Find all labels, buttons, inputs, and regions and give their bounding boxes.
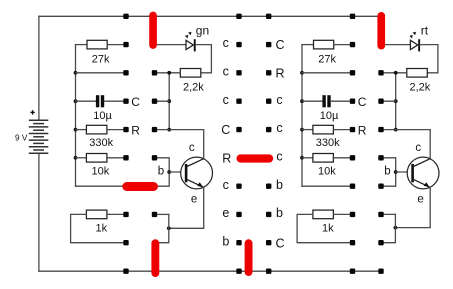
svg-text:c: c xyxy=(223,36,229,50)
svg-text:e: e xyxy=(191,193,197,205)
wire row5 pad to base bus xyxy=(155,158,170,186)
svg-text:1k: 1k xyxy=(95,222,107,234)
wire 2,2k left to pad row2 xyxy=(155,72,181,74)
node pads row2 xyxy=(123,70,383,75)
capacitor C1 10u (left) xyxy=(96,95,104,107)
wire row5 pad to base bus right xyxy=(381,158,396,186)
svg-text:gn: gn xyxy=(196,23,209,37)
wire 2,2k left to pad row2 right xyxy=(381,72,407,74)
wire row7 pad to emitter bus right xyxy=(381,213,395,215)
LED D2 rt xyxy=(409,32,420,52)
wire battery negative lead (left rail lower) xyxy=(38,153,40,271)
wire capacitor to pad xyxy=(104,100,126,102)
svg-text:9 V: 9 V xyxy=(15,133,28,142)
junction row3 left xyxy=(167,99,171,103)
wire row4 pad to collector right xyxy=(381,130,430,159)
svg-text:b: b xyxy=(276,206,283,220)
wire LED gn anode feed xyxy=(155,44,186,46)
wire LED rt anode feed xyxy=(383,44,410,46)
svg-text:C: C xyxy=(131,95,140,109)
svg-text:2,2k: 2,2k xyxy=(183,81,204,93)
wire left block vertical rail xyxy=(75,45,77,187)
wire row4 rail to 330k right xyxy=(302,129,313,131)
transistor Q2 (right) xyxy=(407,157,439,189)
wire row6 rail to jumper xyxy=(76,185,127,187)
svg-text:27k: 27k xyxy=(318,54,336,66)
wire row6 rail to pad right xyxy=(302,185,353,187)
svg-text:c: c xyxy=(223,93,229,107)
svg-text:C: C xyxy=(221,123,230,137)
wire row3 pad to bus right xyxy=(381,100,396,102)
wire row2 rail to pad right xyxy=(302,72,353,74)
resistor 330k (right) xyxy=(313,125,334,134)
wire emitter Q1 down xyxy=(169,187,204,228)
svg-text:C: C xyxy=(275,236,284,250)
junction base Q1 xyxy=(167,170,171,174)
svg-text:1k: 1k xyxy=(322,222,334,234)
node rail junctions right xyxy=(300,71,304,160)
svg-text:c: c xyxy=(276,149,282,163)
jumper J5 red bottom left xyxy=(151,239,159,277)
wire right block vertical rail xyxy=(301,45,303,187)
node pads row4 xyxy=(123,127,383,132)
junction emitter node right xyxy=(394,226,398,230)
svg-text:c: c xyxy=(276,121,282,135)
wire row7 pad to emitter bus xyxy=(155,213,169,215)
node pads row3 xyxy=(123,99,383,104)
wire battery positive lead (left rail upper) xyxy=(38,16,40,120)
svg-text:b: b xyxy=(158,166,164,178)
junction base Q2 xyxy=(394,170,398,174)
wire collector bus vertical (rows2-4 right) xyxy=(395,73,397,130)
wire 27k to pad xyxy=(107,44,126,46)
svg-text:c: c xyxy=(415,142,421,154)
wire base Q2 xyxy=(396,171,412,173)
svg-text:rt: rt xyxy=(421,23,429,37)
svg-text:10µ: 10µ xyxy=(320,110,339,122)
capacitor C2 10u (right) xyxy=(322,95,330,107)
wire row4 pad to collector xyxy=(155,130,204,159)
wire 1k top to pad row7 right xyxy=(333,213,352,215)
wire 27k to pad right xyxy=(334,44,353,46)
wire 27k row1 left xyxy=(76,44,88,46)
junction row3 right xyxy=(394,99,398,103)
junction row4 left xyxy=(167,128,171,132)
svg-text:10µ: 10µ xyxy=(93,110,112,122)
wire LED rt cathode to corner xyxy=(420,45,438,73)
wire emitter bus rows7-8 left xyxy=(159,214,169,242)
junction row2 right xyxy=(394,71,398,75)
battery plus terminal mark xyxy=(30,110,34,114)
wire 330k to pad xyxy=(107,129,126,131)
svg-text:R: R xyxy=(222,151,231,165)
jumper J6 red bottom middle xyxy=(245,239,253,276)
node pads row5 xyxy=(123,155,383,160)
resistor 1k (left) xyxy=(86,210,107,219)
wire emitter Q2 down xyxy=(395,187,430,227)
resistor 2,2k (right) xyxy=(407,69,428,78)
wire collector bus vertical (rows2-4 left) xyxy=(168,73,170,130)
node pads row1 xyxy=(123,42,355,47)
node pads top rail xyxy=(123,14,355,19)
jumper J1 red top left xyxy=(149,12,157,49)
svg-text:C: C xyxy=(358,95,367,109)
wire 10k to pad right xyxy=(333,157,352,159)
node pads row6 xyxy=(236,184,383,189)
node letters middle right column xyxy=(275,38,284,250)
jumper J4 red row5 middle xyxy=(237,154,274,162)
wire capacitor to pad right xyxy=(331,100,353,102)
resistor 27k (right) xyxy=(314,40,334,49)
resistor 330k (left) xyxy=(86,125,107,134)
node pads row7 xyxy=(123,212,383,217)
battery B1 9V xyxy=(29,120,49,153)
wire 1k U loop to row8 right xyxy=(297,214,352,242)
svg-text:C: C xyxy=(275,38,284,52)
wire row5 rail to 10k right xyxy=(302,157,313,159)
junction emitter node left xyxy=(167,226,171,230)
svg-text:R: R xyxy=(131,124,140,138)
svg-text:b: b xyxy=(222,234,229,248)
node rail junctions left xyxy=(74,71,78,160)
wire 1k top to pad row7 xyxy=(107,213,126,215)
svg-text:2,2k: 2,2k xyxy=(410,81,431,93)
LED D1 gn xyxy=(185,32,196,52)
wire top supply rail xyxy=(39,15,381,17)
svg-text:27k: 27k xyxy=(92,54,110,66)
svg-text:330k: 330k xyxy=(89,137,113,149)
wire 1k U loop to row8 xyxy=(71,214,126,242)
svg-text:e: e xyxy=(222,206,229,220)
wire row3 rail to capacitor xyxy=(76,100,97,102)
svg-text:c: c xyxy=(223,64,229,78)
node letters middle left column xyxy=(221,36,231,248)
wire 330k to pad right xyxy=(333,129,352,131)
svg-text:b: b xyxy=(276,178,283,192)
junction row2 left xyxy=(167,71,171,75)
wire row4 rail to 330k xyxy=(76,129,87,131)
svg-text:c: c xyxy=(223,178,229,192)
node pads row8 xyxy=(123,240,383,245)
resistor 10k (right) xyxy=(313,154,334,163)
node pads bottom rail xyxy=(123,269,383,274)
wire 27k row1 right xyxy=(302,44,314,46)
wire row3 rail to capacitor right xyxy=(302,100,323,102)
wire 10k to pad xyxy=(107,157,126,159)
svg-text:R: R xyxy=(358,124,367,138)
wire row3 pad to bus xyxy=(155,100,170,102)
svg-text:10k: 10k xyxy=(92,166,110,178)
svg-text:e: e xyxy=(417,193,423,205)
resistor 1k (right) xyxy=(313,210,334,219)
wire base Q1 xyxy=(169,171,185,173)
resistor 27k (left) xyxy=(87,40,107,49)
wire LED cathode to corner xyxy=(196,45,212,73)
svg-text:b: b xyxy=(384,166,390,178)
wire row5 rail to 10k xyxy=(76,157,87,159)
svg-text:c: c xyxy=(276,93,282,107)
svg-text:c: c xyxy=(189,142,195,154)
svg-text:R: R xyxy=(275,66,284,80)
jumper J2 red top right xyxy=(377,12,385,50)
wire row2 rail to pad xyxy=(76,72,127,74)
wire bottom supply rail xyxy=(39,270,381,272)
resistor 2,2k (left) xyxy=(180,69,201,78)
svg-text:330k: 330k xyxy=(316,137,340,149)
resistor 10k (left) xyxy=(86,154,107,163)
svg-text:10k: 10k xyxy=(318,166,336,178)
wire emitter bus rows7-8 right xyxy=(381,214,395,242)
junction row4 right xyxy=(394,128,398,132)
transistor Q1 (left) xyxy=(181,157,213,189)
jumper J3 red row6 left xyxy=(122,182,158,191)
